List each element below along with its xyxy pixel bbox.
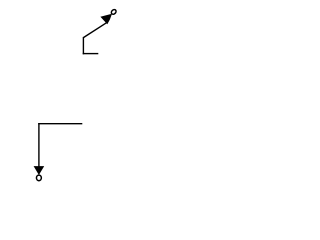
wire (top element, horizontal segment) (83, 53, 99, 55)
wire (top element, diagonal segment to arrow) (83, 23, 106, 38)
wire (top element, vertical segment) (82, 37, 84, 54)
wire (bottom element, vertical segment) (38, 123, 40, 168)
wire (bottom element, horizontal segment) (38, 123, 82, 125)
pin terminal (top, open circle) (110, 9, 117, 16)
arrowhead (top, pointing up-right at pin) (100, 14, 112, 24)
arrowhead (bottom, pointing down at pin) (34, 166, 45, 175)
pin terminal (bottom, open circle) (36, 175, 41, 181)
